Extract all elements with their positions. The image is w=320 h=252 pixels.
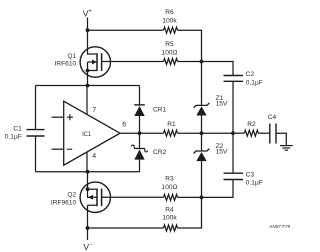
node V- [83, 242, 93, 252]
svg-text:0.1µF: 0.1µF [5, 133, 22, 140]
wire R4 up to gate node [178, 197, 202, 228]
svg-text:6: 6 [122, 121, 126, 128]
junction dot zener node [200, 131, 204, 135]
wire bottom box rail [36, 171, 140, 173]
wire non-inverting input stub [52, 116, 64, 118]
svg-text:−: − [89, 242, 93, 248]
zener Z1 [194, 62, 228, 134]
wire R6 to right column corner [178, 30, 202, 61]
svg-text:C1: C1 [13, 125, 22, 132]
transistor Q2 IRF9610 [51, 172, 111, 228]
junction dot at R5/R6 node [200, 60, 204, 64]
wire Q1 gate to R5 [102, 61, 164, 63]
svg-text:15V: 15V [216, 101, 228, 108]
wire zener node to C branch [202, 132, 234, 134]
node V+ [83, 9, 93, 19]
junction dot gate node Q2 [200, 196, 204, 200]
wire top box rail [36, 85, 140, 87]
junction dot top box rail [86, 84, 90, 88]
svg-text:AN87 F79: AN87 F79 [268, 224, 290, 229]
wire op-amp output to R1 [120, 132, 164, 134]
svg-text:R1: R1 [167, 121, 176, 128]
svg-text:+: + [88, 9, 92, 15]
resistor R6 [162, 9, 177, 33]
resistor R5 [162, 41, 178, 64]
svg-text:100k: 100k [162, 214, 177, 221]
wire C branch to R2 [233, 132, 244, 134]
wire C4 to ground [276, 133, 286, 145]
svg-text:C2: C2 [246, 71, 255, 78]
resistor R1 [164, 121, 178, 136]
resistor R3 [162, 176, 178, 201]
wire node to C2 branch [202, 62, 234, 76]
capacitor C1 [5, 125, 45, 140]
svg-text:IRF9610: IRF9610 [51, 200, 77, 207]
wire C3 to gate node [202, 180, 234, 198]
wire mid rail down to C3 [232, 133, 234, 173]
svg-text:C3: C3 [246, 171, 255, 178]
svg-text:CR1: CR1 [153, 106, 167, 113]
svg-text:Q1: Q1 [67, 53, 76, 60]
svg-text:4: 4 [92, 153, 96, 160]
wire pin 7 to top rail [86, 86, 88, 115]
wire top rail V+ to R6 [88, 29, 164, 31]
svg-text:R5: R5 [165, 41, 174, 48]
wire pin 4 to bottom rail [86, 152, 88, 172]
junction dot bottom rail [86, 226, 90, 230]
wire R3 to gate node [178, 196, 202, 198]
svg-text:R2: R2 [247, 121, 256, 128]
wire C1 branch upper [35, 86, 37, 130]
svg-text:15V: 15V [216, 149, 228, 156]
wire R1 to zener node [178, 132, 202, 134]
wire CR branch top [139, 86, 141, 105]
svg-text:0.1µF: 0.1µF [246, 180, 263, 187]
junction dot V+ node [86, 28, 90, 32]
capacitor C2 [224, 71, 263, 86]
ground [280, 146, 293, 151]
capacitor C3 [224, 171, 263, 186]
wire Q2 gate to R3 [102, 196, 164, 198]
wire bottom rail to R4 [88, 227, 164, 229]
wire R5 to node [178, 61, 202, 63]
junction dot mid C branch [231, 131, 235, 135]
op-amp IC1 [64, 101, 127, 165]
resistor R4 [162, 206, 177, 231]
capacitor C4 [268, 114, 277, 144]
wire V- stub [87, 228, 89, 240]
svg-text:CR2: CR2 [153, 149, 167, 156]
wire R2 to C4 [258, 132, 270, 134]
svg-text:C4: C4 [268, 114, 277, 121]
svg-text:IC1: IC1 [82, 131, 91, 138]
svg-text:Q2: Q2 [67, 191, 76, 198]
svg-text:100Ω: 100Ω [162, 49, 178, 56]
wire V+ stub down to top junction [87, 18, 89, 31]
zener Z2 [194, 133, 228, 197]
svg-text:100k: 100k [162, 17, 177, 24]
svg-text:R4: R4 [165, 206, 174, 213]
svg-text:R3: R3 [165, 176, 174, 183]
resistor R2 [244, 121, 258, 136]
wire C2 down to mid rail [232, 81, 234, 133]
junction dot output node [138, 131, 142, 135]
svg-text:R6: R6 [165, 9, 174, 16]
svg-text:0.1µF: 0.1µF [246, 79, 263, 86]
diode CR2 (schottky) [131, 133, 166, 172]
svg-text:7: 7 [92, 107, 96, 114]
wire C1 branch lower [35, 136, 37, 172]
wire inverting input stub [52, 148, 64, 150]
transistor Q1 IRF610 [55, 30, 111, 85]
diode CR1 [134, 105, 166, 133]
svg-text:IRF610: IRF610 [55, 60, 77, 67]
junction dot bottom box rail [86, 170, 90, 174]
svg-text:100Ω: 100Ω [162, 184, 178, 191]
